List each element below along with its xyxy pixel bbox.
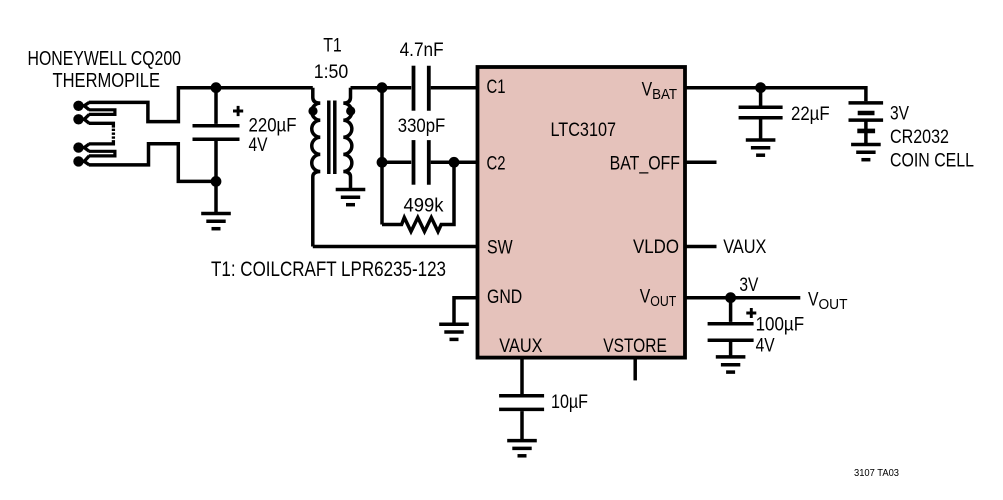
- svg-text:VAUX: VAUX: [499, 335, 542, 357]
- plus sign 220uF: [233, 106, 243, 116]
- ground under 100uF: [716, 357, 746, 372]
- svg-text:330pF: 330pF: [398, 115, 446, 137]
- svg-text:C2: C2: [487, 152, 506, 174]
- wire SW from primary: [313, 245, 478, 249]
- svg-text:COIN CELL: COIN CELL: [890, 150, 974, 172]
- thermopile middle link with dashed section: [89, 123, 114, 144]
- svg-text:4V: 4V: [249, 134, 269, 156]
- svg-text:4V: 4V: [756, 334, 776, 356]
- ground under battery: [851, 145, 881, 160]
- thermopile lead chevrons: [79, 102, 90, 164]
- resistor 499k: [382, 162, 454, 231]
- wire BAT_OFF stub: [685, 161, 717, 165]
- svg-text:10µF: 10µF: [551, 391, 588, 413]
- transformer T1 primary winding: [312, 88, 321, 247]
- transformer phase dot secondary: [346, 106, 355, 115]
- node VBAT junction: [755, 82, 766, 93]
- wire thermopile top output to top rail: [89, 88, 313, 122]
- ground under 22uF: [746, 140, 776, 155]
- wire GND pin: [454, 298, 478, 325]
- capacitor 4.7nF: [414, 66, 429, 111]
- node secondary top junction: [377, 82, 388, 93]
- transformer T1 secondary winding: [343, 88, 352, 190]
- svg-text:VLDO: VLDO: [633, 236, 679, 258]
- node 330pF left junction: [377, 157, 388, 168]
- ground under 10uF: [507, 441, 537, 456]
- svg-text:499k: 499k: [404, 194, 444, 216]
- wire VAUX stub: [520, 358, 524, 395]
- svg-text:BAT_OFF: BAT_OFF: [610, 152, 680, 174]
- ground under secondary: [336, 190, 366, 205]
- svg-text:VSTORE: VSTORE: [603, 335, 667, 357]
- capacitor 330pF: [414, 140, 429, 185]
- svg-text:SW: SW: [487, 237, 513, 259]
- node 330pF right junction: [449, 157, 460, 168]
- ground at GND pin: [439, 324, 469, 339]
- capacitor 10uF: [499, 396, 544, 441]
- svg-text:CR2032: CR2032: [890, 126, 949, 148]
- svg-text:C1: C1: [487, 76, 506, 98]
- capacitor 100uF plus lead: [708, 298, 754, 357]
- wire thermopile bottom output to bottom rail: [89, 144, 216, 182]
- wire VSTORE stub: [633, 358, 637, 381]
- svg-text:22µF: 22µF: [791, 103, 830, 125]
- node VOUT junction: [725, 292, 736, 303]
- svg-text:T1: COILCRAFT LPR6235-123: T1: COILCRAFT LPR6235-123: [211, 258, 446, 281]
- svg-text:HONEYWELL CQ200: HONEYWELL CQ200: [28, 48, 182, 70]
- wire to ground from bottom rail: [214, 181, 218, 213]
- wire 330pF row left: [382, 161, 411, 165]
- node bottom rail junction: [211, 176, 222, 187]
- svg-text:VAUX: VAUX: [723, 236, 766, 258]
- svg-text:LTC3107: LTC3107: [551, 119, 617, 141]
- transformer core: [329, 101, 335, 175]
- svg-text:3107 TA03: 3107 TA03: [854, 467, 899, 479]
- wire C2 junction to pin (over resistor column): [454, 161, 478, 165]
- wire 330pF to C2 pin: [431, 161, 478, 165]
- svg-text:4.7nF: 4.7nF: [400, 39, 444, 61]
- wire VBAT to battery: [685, 88, 866, 102]
- thermopile terminal dots: [73, 101, 83, 167]
- capacitor C 220uF plus lead: [193, 88, 240, 182]
- wire 4.7nF to C1 pin: [431, 86, 478, 90]
- label HONEYWELL CQ200 THERMOPILE: [28, 48, 182, 92]
- svg-text:3V: 3V: [739, 274, 759, 296]
- svg-text:THERMOPILE: THERMOPILE: [53, 70, 161, 92]
- svg-text:GND: GND: [487, 286, 522, 308]
- thermopile element hairpin bottom pair: [89, 151, 115, 156]
- wire VOUT: [685, 296, 800, 300]
- capacitor 22uF: [739, 88, 783, 140]
- svg-text:100µF: 100µF: [756, 314, 805, 336]
- wire VLDO stub: [685, 245, 717, 249]
- svg-text:T1: T1: [323, 35, 342, 57]
- transformer phase dot primary: [308, 106, 317, 115]
- wire secondary top to C1 rail: [351, 86, 412, 90]
- battery BT1 CR2032: [849, 103, 884, 145]
- thermopile element hairpin top pair: [89, 110, 115, 115]
- ground under 220uF: [201, 214, 231, 229]
- svg-text:1:50: 1:50: [314, 61, 349, 83]
- label 3V CR2032 COIN CELL: [890, 103, 974, 172]
- IC U1 LTC3107 body: [478, 67, 686, 358]
- wire vertical node column: [380, 88, 384, 225]
- svg-text:3V: 3V: [890, 103, 910, 125]
- node top rail junction: [211, 82, 222, 93]
- plus sign 100uF: [746, 308, 756, 318]
